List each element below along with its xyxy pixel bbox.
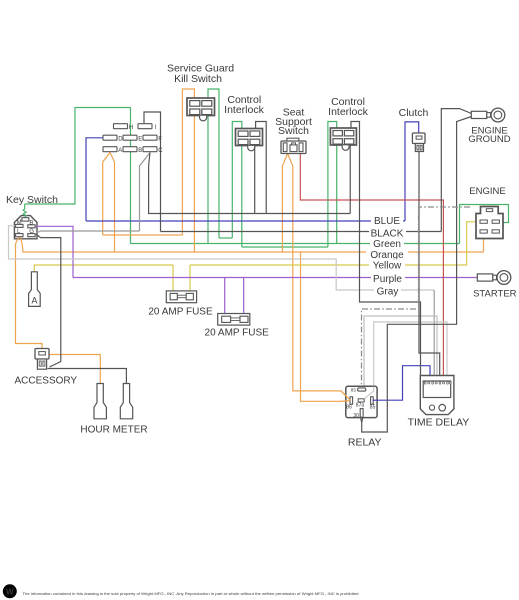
svg-text:A: A (31, 296, 37, 306)
wire gray: key switch G to connector C left fork (36, 231, 139, 233)
svg-text:ACCESSORY: ACCESSORY (14, 375, 77, 386)
node label Green (370, 238, 404, 250)
wire green: green bus to engine connector (460, 205, 509, 244)
wire black: key switch G to accessory connector (36, 234, 61, 367)
connector block grid pin A (103, 147, 122, 154)
wire orange: seat switch left fork to bus (282, 154, 287, 253)
svg-text:Interlock: Interlock (328, 106, 368, 118)
svg-text:B: B (138, 148, 142, 154)
accessory blade terminal A (29, 272, 41, 307)
control interlock connector S2 (236, 129, 263, 151)
svg-text:H: H (129, 125, 133, 131)
svg-text:A: A (118, 148, 122, 154)
wire green: main green bus y=243.5 (131, 243, 460, 245)
key switch terminal B (28, 225, 35, 228)
svg-text:85: 85 (351, 388, 357, 393)
wire orange: seat switch right fork down to relay (288, 154, 350, 400)
clutch connector P1 (412, 133, 425, 152)
fuse F1 20 amp (166, 291, 196, 303)
wire black: engine ground upper lead (441, 109, 471, 232)
wire blue: connector D to blue bus riser (86, 138, 103, 221)
wire orange: key switch L to orange bus (21, 237, 484, 253)
svg-text:STARTER: STARTER (473, 289, 517, 300)
wire black: control interlock 1 bottom lead (254, 146, 256, 214)
node label Yellow (369, 259, 405, 271)
wire orange: connector A left fork (103, 153, 110, 236)
wire black: engine ground lower lead to relay 30 (361, 117, 472, 433)
wire blue: relay 85 to time delay (373, 366, 430, 401)
svg-text:Yellow: Yellow (373, 260, 402, 271)
svg-text:GROUND: GROUND (468, 134, 510, 145)
fuse F2 20 amp (218, 314, 250, 326)
svg-text:W: W (6, 587, 14, 596)
service guard kill switch connector S1 (187, 98, 215, 121)
wire orange: engine connector drop (483, 239, 485, 253)
connector block grid pin E (123, 135, 142, 142)
wire gray light: relay top to time delay (364, 316, 437, 388)
wire black: control interlock 2 bottom lead (349, 146, 351, 214)
wire gray light: key switch M loop to Gray bus to time delay (9, 226, 435, 290)
svg-text:87a: 87a (356, 402, 365, 408)
svg-text:F: F (158, 137, 162, 143)
wire orange: link A fork to kill switch left y=235 (103, 234, 183, 236)
wire black: BLACK bus y=231.5 (161, 231, 442, 233)
key switch KS1 terminals (16, 218, 35, 237)
footer logo W (3, 584, 17, 598)
key switch terminal L (16, 234, 23, 237)
svg-text:E: E (138, 137, 142, 143)
wire blue: clutch connector drop (405, 122, 419, 221)
wire dashed gray: engine to relay 85 dash-dot wire (362, 207, 471, 388)
wire black: accessory to hour meter right terminal (48, 369, 127, 384)
seat support switch connector S3 (281, 138, 306, 153)
connector block grid pin I (138, 124, 157, 131)
engine ground ring terminal (471, 108, 505, 122)
wire orange: relay 86 entry tips (341, 387, 377, 402)
wire green: control interlock 2 loop (328, 122, 337, 248)
svg-text:C: C (158, 148, 163, 154)
wire gray: connector C left fork (139, 153, 150, 232)
wire orange: service guard kill switch loop (182, 89, 194, 252)
wire black: connector C right fork to interlock line y=213.5 (149, 153, 351, 214)
wire black: clutch connector to time delay (419, 152, 440, 376)
relay terminal 87 top (358, 388, 366, 391)
svg-text:Clutch: Clutch (399, 107, 429, 119)
wire orange: bus drop to relay 86 (301, 252, 350, 401)
svg-text:20 AMP FUSE: 20 AMP FUSE (205, 327, 270, 338)
wire black: control interlock 2 top loop to time delay (351, 122, 421, 376)
svg-text:The information contained in t: The information contained in this drawin… (23, 592, 359, 596)
wire orange: accessory to hour meter left terminal (49, 355, 100, 384)
wire purple: purple bus y=277.5 to starter (73, 277, 477, 279)
wire dashed gray: relay 87 entry tip (361, 387, 363, 389)
wire green: key switch S to riser x75 (25, 108, 131, 205)
svg-text:Key Switch: Key Switch (6, 194, 58, 206)
relay terminal 85 bar (371, 397, 374, 404)
wire green: key switch S terminal riser with squiggle (23, 204, 26, 218)
time delay module U1 (420, 376, 454, 415)
wire gray light: relay internal arm (365, 387, 374, 399)
wire red: seat switch to time delay (300, 154, 443, 376)
hour meter terminal left (94, 384, 106, 419)
time delay indicator small circle (429, 405, 434, 410)
connector block grid pin F (143, 135, 162, 142)
key switch terminal M (16, 224, 23, 227)
wire green: connector B column down to green bus (130, 108, 132, 244)
svg-text:Gray: Gray (377, 287, 399, 298)
wire green: control interlock 1 loop (232, 122, 242, 248)
wire black: control interlock 1 top loop (256, 122, 267, 214)
wire gray light: relay arm to time delay (374, 322, 447, 391)
relay terminal 86 bar (350, 397, 353, 404)
key switch terminal G (28, 234, 35, 237)
svg-text:Green: Green (373, 239, 401, 250)
relay K1 (346, 386, 377, 419)
svg-text:Switch: Switch (278, 125, 309, 137)
node label Orange (366, 248, 408, 260)
svg-text:Kill Switch: Kill Switch (174, 73, 222, 85)
wire black: connector I loop (144, 112, 161, 232)
svg-text:Purple: Purple (373, 274, 402, 285)
engine connector P2 (476, 207, 503, 239)
svg-text:M: M (17, 220, 22, 226)
wire yellow: fuse 1 left leg (172, 265, 174, 292)
wire blue: relay 85 entry tip (373, 399, 378, 401)
wire orange: connector A right fork to orange bus (110, 153, 115, 253)
relay terminal 30 bar (360, 409, 363, 418)
key switch KS1 body (14, 216, 37, 239)
time delay pin row (424, 382, 451, 384)
svg-text:ENGINE: ENGINE (469, 186, 505, 197)
wire blue: blue bus y=221 (86, 220, 405, 222)
wire purple: fuse 2 left leg (224, 278, 226, 315)
svg-text:B: B (29, 220, 33, 226)
hour meter terminal right (120, 384, 132, 419)
svg-text:RELAY: RELAY (348, 436, 382, 448)
node label BLUE (371, 214, 403, 227)
connector block grid pin H (114, 124, 134, 131)
control interlock 2 connector S4 (330, 128, 356, 150)
wire yellow: yellow bus to engine connector (190, 222, 476, 265)
svg-text:30: 30 (353, 413, 359, 419)
node label BLACK (369, 226, 406, 239)
starter ring terminal (477, 271, 511, 285)
accessory connector P3 (35, 349, 49, 370)
svg-text:Orange: Orange (370, 250, 404, 261)
wire yellow: fuse 1 right leg (189, 265, 191, 292)
wire green: kill switch to control interlock 1 link y=238 (219, 237, 232, 239)
svg-text:85: 85 (370, 405, 376, 411)
wire orange: key switch L to accessory connector (16, 237, 43, 349)
svg-text:BLUE: BLUE (374, 216, 400, 227)
svg-text:G: G (29, 229, 34, 235)
svg-text:TIME DELAY: TIME DELAY (408, 416, 470, 428)
svg-text:86: 86 (346, 405, 352, 411)
time delay indicator large circle (439, 404, 446, 411)
relay 87a clip (358, 399, 364, 402)
connector block grid pin B (123, 147, 142, 154)
node label Purple (371, 273, 405, 285)
node label Gray (374, 285, 401, 297)
wire purple: fuse 2 right leg (243, 278, 245, 315)
connector block grid pin C (143, 147, 163, 154)
wire green: control interlock 1 to control interlock 2 link y=247 (242, 246, 328, 248)
wire yellow: accessory A terminal to yellow bus (34, 265, 173, 272)
wire purple: key switch B to purple bus riser (35, 226, 73, 277)
connector block grid pin D (103, 135, 123, 142)
svg-text:HOUR METER: HOUR METER (80, 424, 147, 435)
svg-text:Interlock: Interlock (224, 104, 264, 116)
wire green: service guard kill switch loop (208, 89, 219, 244)
svg-text:20 AMP FUSE: 20 AMP FUSE (148, 306, 213, 317)
key switch terminal S (22, 218, 29, 221)
